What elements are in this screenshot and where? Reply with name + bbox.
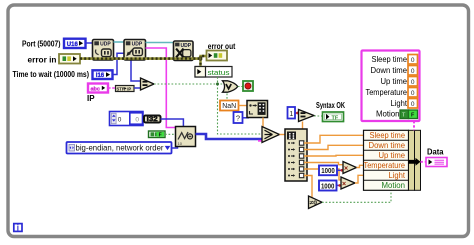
wire multiply2 out orange xyxy=(355,175,364,183)
svg-text:Light: Light xyxy=(389,171,406,180)
wire StrToIP out blue xyxy=(134,87,141,89)
svg-text:Down time: Down time xyxy=(369,141,406,150)
svg-text:Light: Light xyxy=(391,99,408,108)
svg-text:0: 0 xyxy=(411,68,415,75)
svg-text:error in: error in xyxy=(28,55,57,64)
false boolean constant xyxy=(149,131,166,138)
svg-text:Time to wait (10000 ms): Time to wait (10000 ms) xyxy=(13,70,90,79)
svg-text:0: 0 xyxy=(411,57,415,64)
wire index out 6 orange xyxy=(304,176,312,198)
wire index out 1 orange xyxy=(304,135,364,143)
not equal 0 comparator xyxy=(309,196,323,209)
svg-text:0: 0 xyxy=(411,79,415,86)
terminal error in cluster xyxy=(59,54,80,64)
UDP Open icon xyxy=(93,40,114,61)
wire enum blue xyxy=(172,147,178,149)
loop condition terminal (stop) xyxy=(243,81,253,91)
svg-text:Motion: Motion xyxy=(376,110,400,119)
terminal IP string control xyxy=(88,84,108,93)
svg-text:error out: error out xyxy=(208,42,236,51)
svg-text:i: i xyxy=(17,223,19,232)
wire syntax ok green dashed xyxy=(314,115,323,117)
iteration terminal i xyxy=(14,223,22,232)
svg-text:I32: I32 xyxy=(147,117,159,123)
wire 1000b blue xyxy=(337,184,342,186)
svg-text:UDP: UDP xyxy=(100,42,111,48)
junction dot xyxy=(216,83,219,86)
svg-text:NaN: NaN xyxy=(222,103,236,110)
UDP Read icon xyxy=(124,40,146,61)
wire motion green dashed xyxy=(322,190,391,202)
svg-text:Temperature: Temperature xyxy=(364,161,406,170)
svg-text:status: status xyxy=(208,68,230,77)
wire cluster to bundle magenta dashed xyxy=(413,121,415,130)
constant 1 xyxy=(288,107,296,119)
wire UDP data magenta xyxy=(146,48,176,128)
wire index count orange xyxy=(302,122,304,130)
svg-text:Temperature: Temperature xyxy=(366,88,408,97)
svg-text:≠0: ≠0 xyxy=(310,201,318,207)
wire timeout blue xyxy=(113,53,125,74)
wire UDP Read IP out blue xyxy=(131,60,141,81)
svg-text:1000: 1000 xyxy=(321,166,335,175)
wire IP string magenta xyxy=(108,87,116,89)
indicator Data cluster xyxy=(426,158,447,167)
svg-text:Motion: Motion xyxy=(382,181,406,190)
svg-text:1000: 1000 xyxy=(321,181,335,190)
svg-text:0: 0 xyxy=(118,117,122,124)
wire 1 to equal blue with coercion dot xyxy=(295,112,299,114)
svg-text:I16: I16 xyxy=(96,73,105,79)
select function xyxy=(262,127,280,143)
unbundle status node xyxy=(195,67,232,78)
wire NaN orange xyxy=(239,105,248,107)
wire index out 4 orange xyxy=(304,163,343,165)
bundle by name node xyxy=(364,130,421,190)
wire multiply1 out orange xyxy=(357,165,364,167)
wire equal out green dashed xyxy=(154,83,223,85)
wire select out orange xyxy=(280,134,286,136)
svg-text:10: 10 xyxy=(178,141,183,146)
multiply 1 xyxy=(343,162,357,174)
wire selector down green dashed xyxy=(218,84,263,134)
wire or bottom input green dashed xyxy=(226,94,228,101)
svg-text:0: 0 xyxy=(411,101,415,108)
svg-text:IP: IP xyxy=(127,86,131,91)
terminal I16 (Time to wait control) xyxy=(93,70,113,79)
wire search out orange xyxy=(262,118,264,129)
wire 1000a blue xyxy=(337,169,343,171)
wire unflattened array blue thick xyxy=(196,134,263,139)
svg-text:F: F xyxy=(159,132,162,138)
svg-text:?: ? xyxy=(236,113,240,122)
unflatten from string node xyxy=(176,127,196,147)
svg-text:Sleep time: Sleep time xyxy=(372,55,408,64)
wire data magenta dashed xyxy=(421,161,427,163)
svg-text:U16: U16 xyxy=(67,42,79,48)
svg-text:big-endian, network order: big-endian, network order xyxy=(76,144,164,153)
wire array const blue xyxy=(143,118,144,120)
constant 1000 a xyxy=(319,166,337,176)
wire ? blue xyxy=(243,117,250,119)
svg-text:Down time: Down time xyxy=(371,66,408,75)
svg-text:IP: IP xyxy=(87,94,95,103)
svg-text:abc: abc xyxy=(91,86,100,92)
wire index out 3 orange xyxy=(304,154,364,157)
svg-text:STR: STR xyxy=(117,86,125,91)
or gate xyxy=(223,81,238,92)
svg-text:UDP: UDP xyxy=(132,42,143,48)
svg-text:Data: Data xyxy=(427,148,444,157)
wire status down green dashed xyxy=(217,77,219,84)
enum big-endian constant xyxy=(67,142,172,154)
svg-text:0: 0 xyxy=(135,117,139,124)
svg-text:×: × xyxy=(344,166,348,173)
error wire overlay across icon bottoms xyxy=(80,57,201,59)
wire connection cyan 2 xyxy=(146,42,174,44)
svg-text:Port (50007): Port (50007) xyxy=(22,40,61,49)
node String To IP xyxy=(116,86,135,92)
index array node xyxy=(285,129,307,181)
svg-text:Up time: Up time xyxy=(381,77,408,86)
svg-text:Up time: Up time xyxy=(379,151,406,160)
equal? syntax comparator xyxy=(299,110,315,122)
constant ? xyxy=(234,112,243,123)
wire index out 5 orange xyxy=(304,169,341,180)
svg-text:TF: TF xyxy=(332,115,339,121)
wire or out green dashed xyxy=(238,86,243,88)
array constant [0] xyxy=(110,112,144,126)
wire boolean green dashed xyxy=(165,133,176,135)
wire connection cyan 1 xyxy=(114,41,125,43)
svg-text:Sleep time: Sleep time xyxy=(370,131,406,140)
wire index out 2 orange xyxy=(304,145,364,149)
terminal U16 (Port control) xyxy=(64,39,86,48)
indicator Syntax OK boolean xyxy=(323,112,344,122)
svg-text:1: 1 xyxy=(289,111,293,118)
UDP Close icon xyxy=(174,41,194,61)
multiply 2 xyxy=(341,177,355,189)
cluster control frame xyxy=(362,51,420,122)
svg-text:Syntax OK: Syntax OK xyxy=(316,101,345,110)
svg-text:UDP: UDP xyxy=(181,43,192,49)
error wire (error in to UDP chain) xyxy=(80,56,207,67)
constant NaN xyxy=(220,101,239,111)
bundle output arrow xyxy=(408,158,421,166)
equal? IP comparator xyxy=(141,78,155,90)
constant 1000 b xyxy=(319,181,337,191)
I32 cast pill xyxy=(144,116,161,124)
wire type blue xyxy=(161,119,184,127)
terminal error out xyxy=(207,51,228,61)
wire port blue xyxy=(86,42,93,44)
svg-text:0: 0 xyxy=(411,90,415,97)
magenta stub at select xyxy=(258,140,263,142)
svg-text:×: × xyxy=(342,181,346,188)
search 1D array node xyxy=(247,101,268,118)
